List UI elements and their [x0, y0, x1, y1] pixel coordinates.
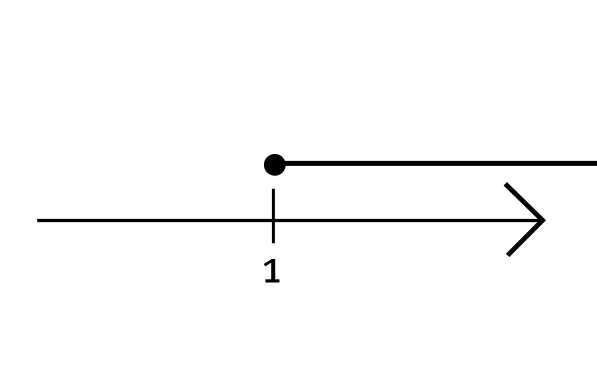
arrowhead chevron [505, 184, 542, 256]
number line axis [37, 219, 542, 222]
bold ray x >= 1 [275, 161, 597, 166]
tick mark at 1 [272, 189, 275, 243]
label 1 [265, 259, 280, 283]
closed endpoint dot [264, 154, 286, 176]
